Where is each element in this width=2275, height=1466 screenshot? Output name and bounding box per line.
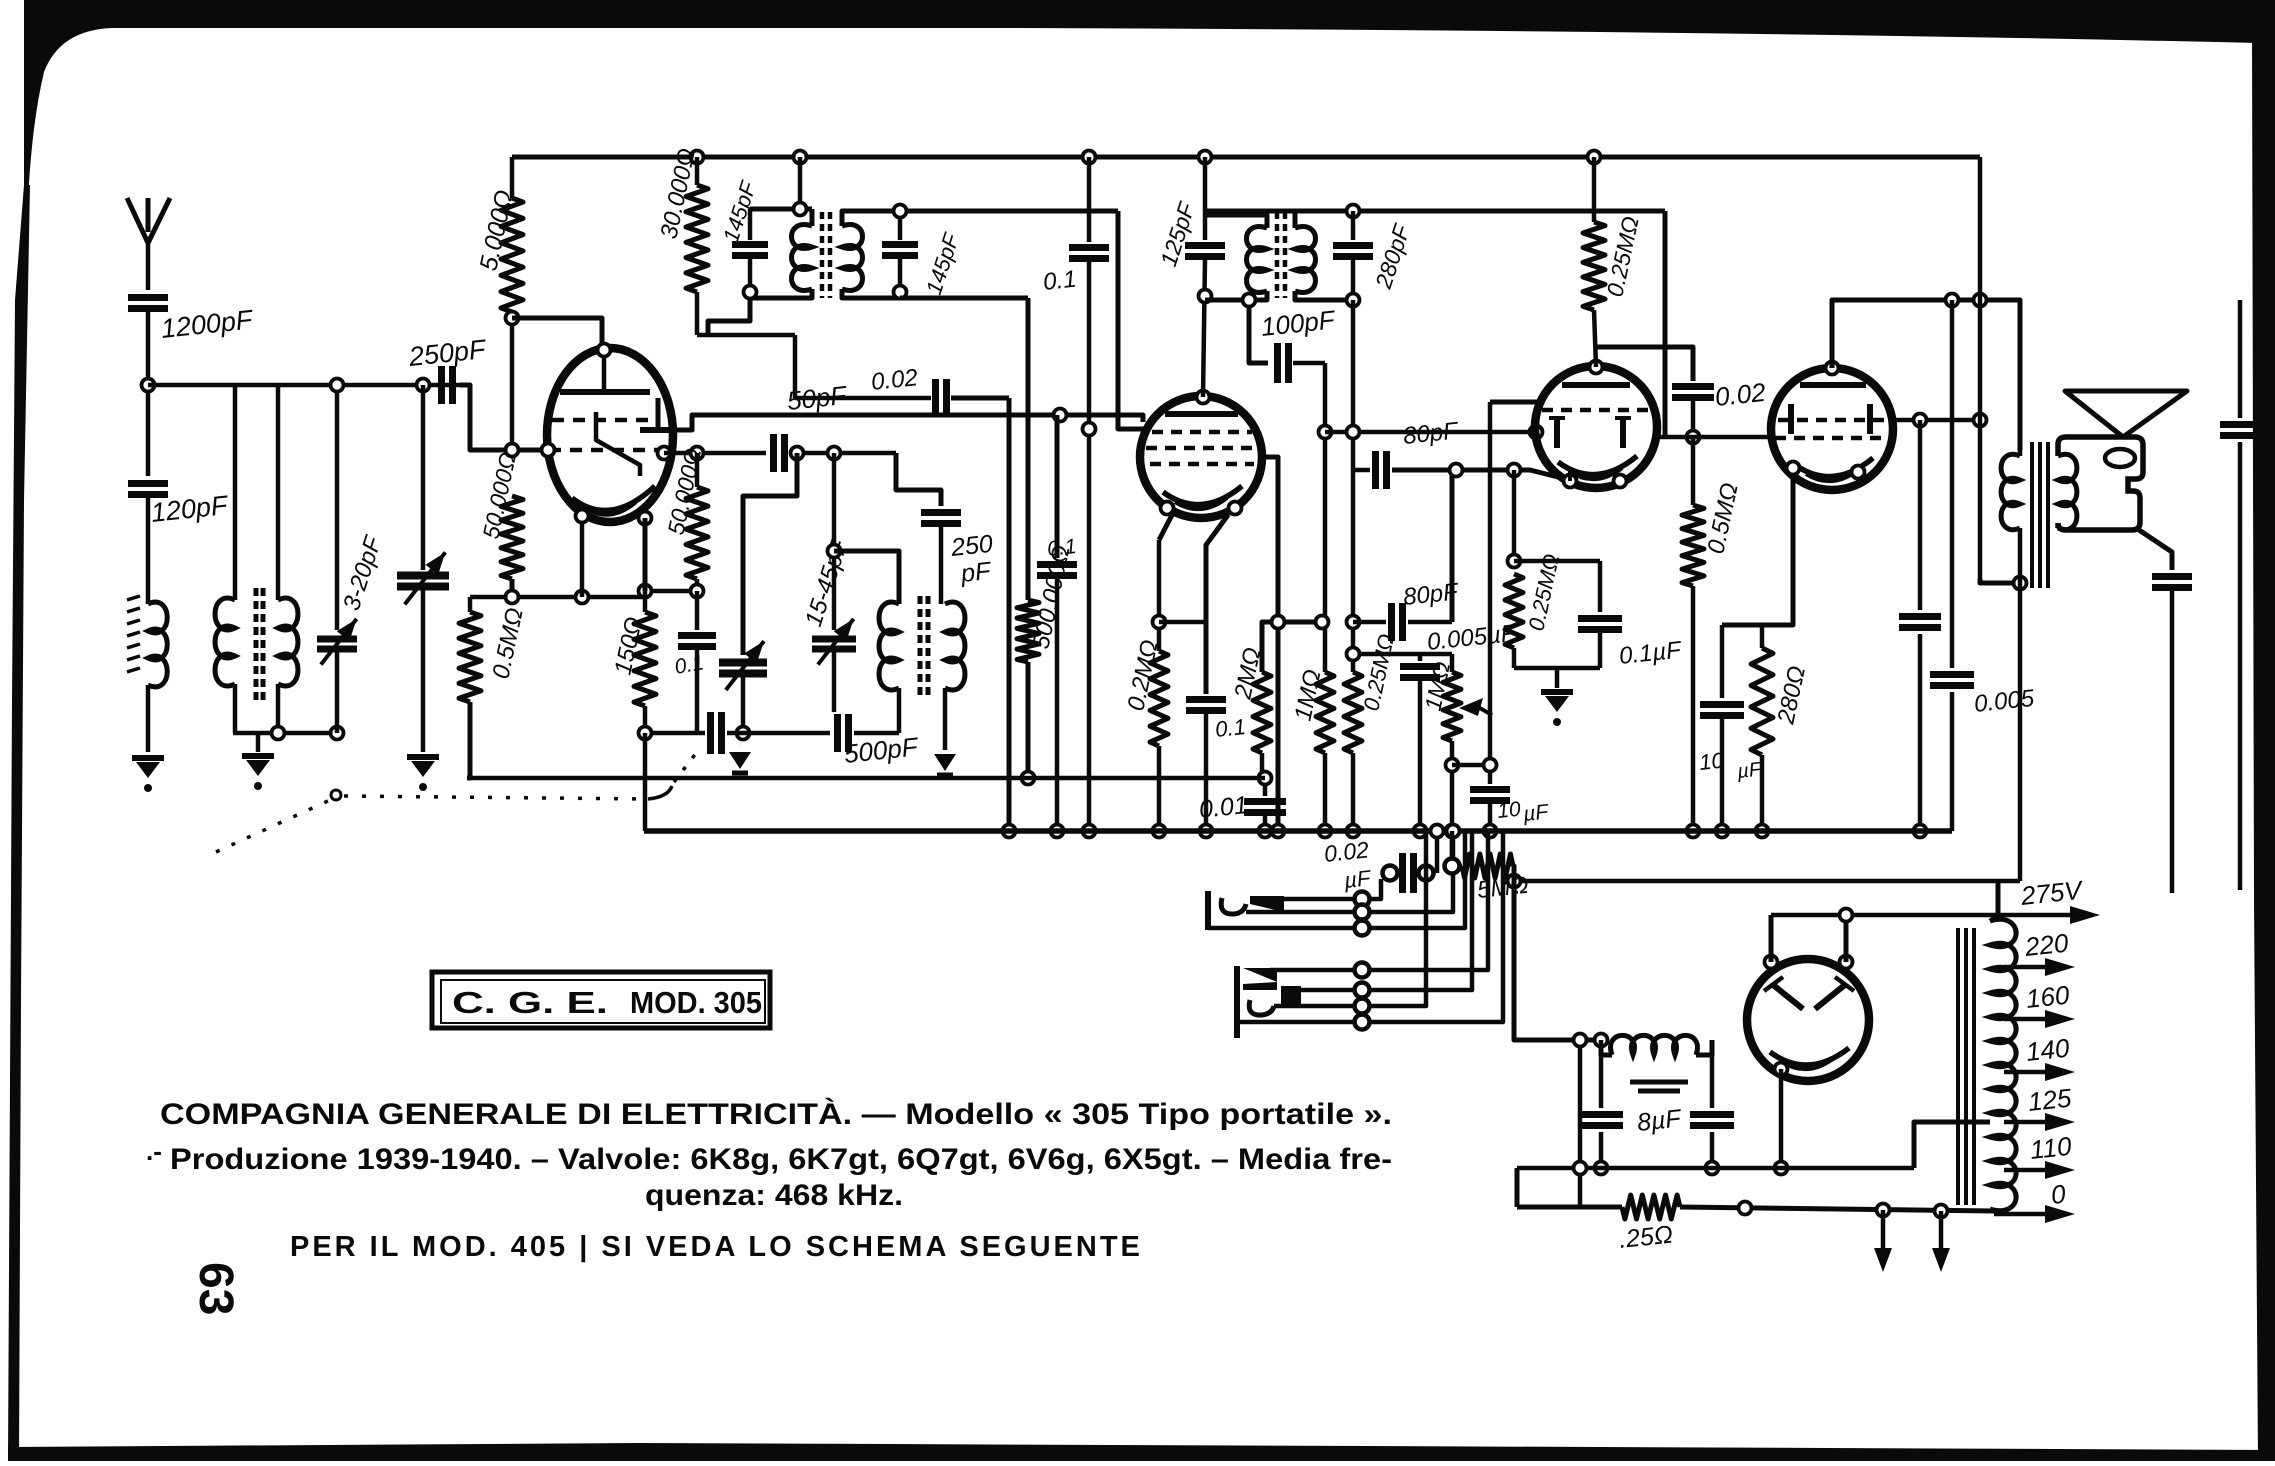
tube4 pins [1826,362,1839,375]
node tube1 grid line [506,444,519,457]
svg-text:10: 10 [1496,798,1522,823]
tube U4 6V6g [1771,368,1893,490]
wire top B+ bus [512,155,1980,160]
wire left cap drop [1578,1040,1583,1207]
svg-text:140: 140 [2024,1033,2071,1067]
speaker coil [2058,454,2077,529]
tube4 cathode network 280 ohm 10uF [1722,468,1793,625]
wire IF1 sec bottom [842,289,900,298]
svg-text:.25Ω: .25Ω [1618,1220,1674,1253]
capacitor 0.005 [1950,300,1955,668]
tube U1 6K8g [547,348,673,522]
capacitor 0.02 osc [795,396,931,401]
switch capacitor 0.02uF [1383,866,1398,881]
capacitor 0.02 coupling [1672,383,1714,390]
wire tube4 plate [1832,300,2020,450]
capacitor 80pF second [1353,620,1386,625]
dashed mechanical gang [331,790,341,800]
node antenna junction [142,379,155,392]
trimmer 15-45pF [832,453,837,630]
osc coil core [918,596,923,700]
RF transformer secondary [233,385,238,600]
speaker frame [2058,437,2143,530]
tone capacitor on screen [1918,420,1923,610]
svg-text:µF: µF [1521,800,1550,826]
tube U3 6Q7gt [1535,366,1657,488]
trimmer 3-20pF [335,385,340,630]
ground arrows power [1881,1210,1886,1248]
resistor 2M ohm [1253,672,1271,753]
wire B+ drop right [1978,157,1983,579]
wire coil bottoms [233,731,337,736]
wire y591 [645,589,697,594]
svg-text:10: 10 [1698,747,1726,775]
ground AVC [1555,668,1560,688]
tube1 anode bar [602,350,607,392]
capacitor padder [707,712,714,754]
wire antenna to RF transformer [148,383,470,388]
capacitor 50pF [770,434,777,472]
resistor 1M ohm [1316,672,1334,753]
capacitor 280pF [1347,205,1360,218]
core IF1 [820,212,825,298]
wire to variable cap 2 [743,453,797,655]
resistor 150 ohm [643,518,648,591]
svg-text:0.02: 0.02 [1323,836,1370,867]
resistor 0.5M ohm right [1691,437,1696,505]
speaker horn triangle [2065,391,2187,437]
svg-text:0.02: 0.02 [870,364,919,396]
svg-text:PER IL MOD. 405 | SI VEDA LO S: PER IL MOD. 405 | SI VEDA LO SCHEMA SEGU… [290,1231,1143,1263]
tube1 pins [542,444,555,457]
wire AVC line y211 [842,209,1118,214]
variable capacitor tuning 2 [719,659,767,667]
power transformer winding [1990,919,2016,1210]
resistor 0.25M top right [1588,151,1601,164]
svg-text:.-: .- [146,1136,162,1166]
capacitor 0.1 osc cathode [695,591,700,630]
svg-text:pF: pF [959,557,994,588]
IF2 transformer [1205,215,1267,228]
antenna [127,198,148,243]
tube4 grids dashed [1778,418,1888,423]
tube2 anode bar [1165,411,1238,417]
power ground rail [1517,1205,1622,1210]
wire to power filter [1513,866,1601,1040]
tube U5 6X5gt rectifier [1747,959,1869,1081]
capacitor 145pF left [748,209,753,240]
filter choke [1611,1035,1698,1055]
svg-text:quenza: 468 kHz.: quenza: 468 kHz. [645,1179,903,1212]
wire cathode bias line [470,595,645,600]
tube3 anode bar [1562,382,1630,388]
power transformer core [1956,928,1960,1205]
resistor 0.5M ohm left [468,597,473,612]
svg-text:0.1: 0.1 [1214,714,1247,742]
resistor 50.000 ohm left [501,496,523,579]
label box CGE MOD 305 [432,972,770,1028]
svg-text:0.02: 0.02 [1713,377,1767,412]
AVC network 0.25M + 0.1uF [1512,470,1517,561]
ground antenna [132,755,164,761]
capacitor 0.01 [1260,753,1265,780]
svg-text:160: 160 [2024,980,2071,1014]
wire grid tube4 [1693,435,1771,440]
capacitor 0.1 number3 [1037,561,1077,568]
wire IF1 top [750,207,812,212]
capacitor 100pF [1203,298,1208,303]
core RF transformer [254,588,259,700]
wire heater line [1517,1166,1914,1171]
wire padder line y733 [645,731,705,736]
wire main ground rail y831 [644,828,1952,834]
resistor 5.000 ohm [510,157,515,198]
resistor 0.2M ohm [1157,540,1162,651]
tube2 pins [1197,391,1210,404]
speaker small loop [2105,449,2135,467]
wire plate to 0.02 [1594,347,1693,381]
tube3 cathode arcs [1558,456,1637,475]
svg-text:220: 220 [2022,928,2070,963]
osc coil left [834,551,899,604]
capacitor 80pF first [1353,468,1370,473]
coil IF1 primary [792,225,812,291]
wire osc injection to tube2 [676,415,1143,430]
svg-text:0.1: 0.1 [1042,266,1078,296]
wire tube3 cathode to 80pF line [1568,470,1572,481]
tube4 cathode arcs [1794,458,1873,477]
resistor 5M ohm [1450,831,1455,866]
svg-text:Produzione 1939-1940. – Valvol: Produzione 1939-1940. – Valvole: 6K8g, 6… [170,1143,1392,1176]
wire mid rail y778 [467,776,1265,781]
svg-text:COMPAGNIA GENERALE DI ELETTRIC: COMPAGNIA GENERALE DI ELETTRICITÀ. — Mod… [160,1097,1392,1131]
tube1 internal step [596,412,640,476]
svg-text:8µF: 8µF [1636,1104,1684,1137]
tube2 cathode arcs [1163,486,1242,505]
wire y622 segA [1159,620,1206,625]
tube3 diode plates [1554,418,1560,448]
ground padder [739,733,741,748]
wire wiper line [1452,763,1490,768]
wire rectifier cathode [1779,1069,1784,1168]
wire to tube1 anode top [512,318,602,348]
resistor 30.000 ohm [691,151,704,164]
wire screen to B+ [1894,418,1980,423]
wire tube1 to 50pF [664,451,766,456]
tube4 bars [1788,404,1794,434]
capacitor 0.1 number2 [1204,622,1209,694]
capacitor speaker line [2136,528,2172,570]
wire IF1 sec top [842,211,900,226]
wire x1353 down [1351,300,1356,470]
wire B+ top [1996,881,2001,915]
output transformer primary [2018,450,2023,456]
tube2 plate chain 125pF [1199,151,1212,164]
wire tube2 cathode right [1261,457,1278,831]
taps [1998,913,2080,918]
capacitor 10uF first [1488,765,1493,784]
svg-text:63: 63 [189,1262,242,1315]
tube5 pins [1765,956,1778,969]
capacitor 145pF right [898,211,903,240]
wire wiper to tube3 [1488,402,1493,765]
resistor 50.000 ohm second [695,453,700,487]
svg-text:C. G. E.: C. G. E. [452,985,608,1020]
capacitor right drop [2238,300,2243,418]
output transformer core [2030,442,2034,588]
capacitor 500pF [834,714,841,752]
svg-text:125: 125 [2026,1083,2073,1117]
tube4 anode bar [1800,382,1866,388]
wire dropper x1325 grid line [1323,363,1328,672]
svg-text:50pF: 50pF [785,380,849,416]
ground osc coil [943,688,948,750]
variable capacitor tuning 1 [417,379,430,392]
tube1 grids dashed [552,418,648,423]
svg-text:110: 110 [2028,1131,2073,1165]
tube5 cathode arc [1770,1048,1849,1065]
svg-text:0.01: 0.01 [1198,791,1249,824]
wire plate feeds [1769,915,1774,962]
osc coil right [945,602,965,690]
capacitor 250pF osc [896,453,941,506]
capacitor 8uF left [1595,1034,1608,1047]
tube1 triode anode [656,398,661,430]
tube U2 6K7gt [1140,396,1262,518]
wire 250pF to tube1 grid [460,385,548,450]
tube2 grids dashed [1152,430,1252,435]
wire IF1 primary bottom [750,289,812,298]
wire B+ return rail y881 [1514,879,2020,884]
capacitor 250pF [438,366,445,404]
wire AVC drop to tube2 grid [1118,211,1146,429]
coil IF1 secondary [842,225,862,291]
switch wave change upper [1205,891,1211,930]
capacitor 8uF right [1710,1040,1715,1108]
wire 30000 bottom to osc line [697,333,795,338]
tube1 cathode arcs [572,486,655,511]
capacitor 0.1 from bus [1083,151,1096,164]
capacitor 0.005uF [1353,652,1452,657]
switch wave change lower [1234,966,1240,1038]
svg-text:µF: µF [1735,758,1764,783]
svg-text:MOD. 305: MOD. 305 [630,985,762,1020]
wire x647 link [643,733,648,831]
potentiometer 1M ohm [1443,672,1461,741]
wire output transformer return [2018,583,2023,881]
capacitor 120pF [128,480,168,487]
ground RF coil [256,733,261,752]
resistor 0.25M ohm mid [1344,672,1362,753]
node 5000 bottom [506,312,519,325]
wire dropper x1057 [1055,415,1060,558]
tube5 plates [1772,984,1803,1009]
wire grid line tube3 [1325,430,1536,435]
wire 50pF right [790,451,896,456]
wire tube1 cathode [580,520,585,597]
resistor 500.000 ohm [900,296,1028,301]
wire AVC line right end [1663,211,1668,437]
capacitor 1200pF [128,294,168,301]
wire dropper x1009 [1007,398,1012,831]
IF1 transformer [794,151,807,164]
antenna coil primary [148,602,167,687]
svg-text:µF: µF [1342,865,1373,893]
svg-text:5MΩ: 5MΩ [1476,872,1530,904]
tube3 grid dashed [1542,408,1650,413]
tube3 pins [1590,361,1603,374]
